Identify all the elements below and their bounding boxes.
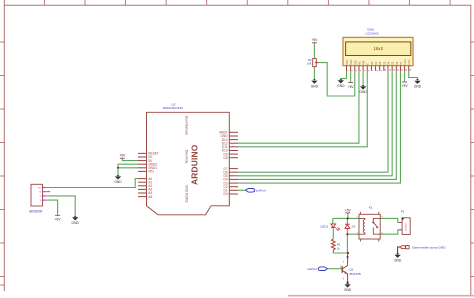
svg-text:SENSOR: SENSOR <box>29 210 43 214</box>
svg-text:Submersible pump GND: Submersible pump GND <box>412 245 446 249</box>
svg-text:R2: R2 <box>308 58 312 62</box>
svg-text:ARDUINOUNO: ARDUINOUNO <box>163 106 184 110</box>
svg-text:BC547B: BC547B <box>350 272 361 276</box>
svg-text:GND: GND <box>414 85 422 89</box>
svg-text:RS: RS <box>358 61 361 65</box>
svg-text:VIN: VIN <box>148 170 154 174</box>
svg-text:GND: GND <box>311 84 319 88</box>
svg-text:RW: RW <box>363 60 366 65</box>
svg-text:Q1: Q1 <box>350 267 354 271</box>
svg-text:+5V: +5V <box>119 154 126 158</box>
svg-text:1269632: 1269632 <box>406 222 408 231</box>
svg-text:LED-: LED- <box>408 59 411 65</box>
svg-text:GND: GND <box>394 259 402 263</box>
svg-text:P1: P1 <box>401 210 405 214</box>
svg-text:VEE: VEE <box>354 60 357 65</box>
svg-text:Duemilanove: Duemilanove <box>184 116 188 135</box>
svg-text:10K: 10K <box>307 62 312 66</box>
svg-text:ARDUINO: ARDUINO <box>189 144 199 185</box>
svg-text:VSS: VSS <box>346 60 349 65</box>
svg-text:setPort: setPort <box>307 267 317 271</box>
svg-text:+5V: +5V <box>55 218 62 222</box>
svg-text:Diecimila: Diecimila <box>184 150 188 164</box>
svg-text:D2: D2 <box>352 225 356 229</box>
svg-text:+5V: +5V <box>345 208 352 212</box>
svg-text:LED1: LED1 <box>321 224 329 228</box>
svg-text:setPort: setPort <box>256 189 266 193</box>
svg-text:GND: GND <box>337 84 345 88</box>
svg-text:GND: GND <box>344 288 352 292</box>
svg-text:+5V: +5V <box>348 85 355 89</box>
svg-text:A5: A5 <box>148 195 152 199</box>
svg-text:D0: D0 <box>224 192 228 196</box>
svg-text:LCD16X2: LCD16X2 <box>366 31 379 35</box>
svg-text:GND: GND <box>359 90 367 94</box>
svg-text:GND: GND <box>114 180 122 184</box>
svg-text:+5V: +5V <box>311 38 318 42</box>
svg-text:K1: K1 <box>369 206 373 210</box>
svg-text:+5V: +5V <box>402 84 409 88</box>
svg-text:GND: GND <box>72 221 80 225</box>
svg-text:LED+: LED+ <box>404 58 407 65</box>
svg-text:UNO R3/R2: UNO R3/R2 <box>184 185 188 203</box>
svg-text:D8: D8 <box>224 156 228 160</box>
svg-text:16x2: 16x2 <box>373 46 383 51</box>
svg-text:VDD: VDD <box>350 59 353 64</box>
